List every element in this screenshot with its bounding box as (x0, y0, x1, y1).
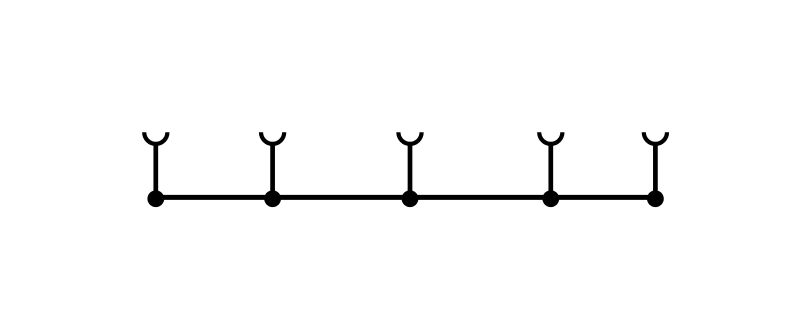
node junction J4 (542, 190, 559, 207)
terminal contact T4 (arc) (539, 132, 562, 144)
wire: stem T1 (153, 143, 158, 198)
wire: stem T4 (548, 143, 553, 198)
wire: horizontal bus (156, 195, 656, 200)
node junction J3 (402, 190, 419, 207)
node junction J1 (147, 190, 164, 207)
terminal contact T5 (arc) (644, 132, 667, 144)
wire: stem T5 (653, 143, 658, 198)
terminal contact T1 (arc) (144, 132, 167, 144)
wire: stem T2 (270, 143, 275, 198)
terminal contact T2 (arc) (261, 132, 284, 144)
wire: stem T3 (408, 143, 413, 198)
node junction J2 (264, 190, 281, 207)
node junction J5 (647, 190, 664, 207)
terminal contact T3 (arc) (398, 132, 421, 144)
